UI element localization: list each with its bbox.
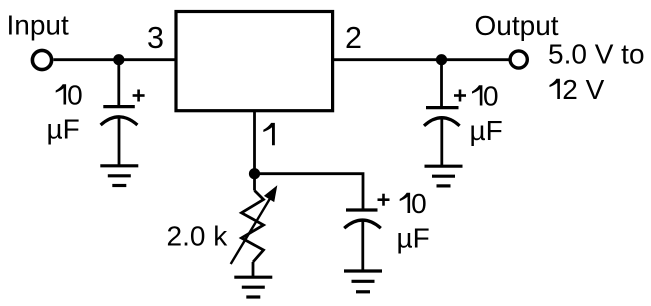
C2 value 10	[472, 81, 499, 112]
wire pin 1 junction to capacitor C3	[255, 174, 364, 209]
ground (C2)	[425, 166, 463, 186]
resistor R1 (2.0 k variable)	[242, 179, 264, 277]
wire input terminal to pin 3	[54, 58, 178, 61]
wire C3 to ground	[361, 222, 364, 271]
svg-text:µF: µF	[47, 114, 80, 145]
R1 value 2.0 k	[167, 221, 229, 252]
svg-text:0: 0	[67, 80, 83, 111]
wire C1 to ground	[118, 118, 121, 166]
pin 2 label	[345, 21, 362, 55]
regulator U1	[176, 12, 333, 111]
R1 wiper arrow	[231, 185, 278, 264]
wire pin 1 down	[253, 112, 256, 174]
label Output	[475, 10, 559, 41]
ground (R1)	[234, 277, 272, 297]
svg-text:5.0 V to: 5.0 V to	[548, 39, 645, 70]
output terminal	[510, 51, 527, 68]
svg-text:2: 2	[345, 21, 362, 55]
C1 value 10	[56, 80, 83, 111]
label 12 V	[550, 74, 605, 105]
pin 3 label	[147, 21, 164, 55]
wire output junction to capacitor C2	[440, 60, 443, 107]
capacitor C1	[101, 107, 138, 125]
ground (C3)	[344, 271, 382, 292]
C2 value µF	[470, 115, 503, 146]
svg-text:µF: µF	[397, 223, 430, 254]
ground (C1)	[100, 166, 138, 186]
svg-text:2.0 k: 2.0 k	[167, 221, 229, 252]
svg-text:Input: Input	[7, 10, 69, 41]
capacitor C2	[424, 108, 460, 126]
svg-text:µF: µF	[470, 115, 503, 146]
input terminal	[32, 50, 51, 69]
wire C2 to ground	[440, 119, 443, 166]
svg-text:2 V: 2 V	[562, 74, 604, 105]
node output junction	[436, 54, 447, 65]
wire input junction to capacitor C1	[117, 60, 120, 106]
svg-text:0: 0	[411, 188, 427, 219]
C2 polarity plus	[454, 90, 466, 102]
wire pin 2 to output terminal	[333, 58, 509, 61]
pin 1 label	[263, 123, 275, 145]
C3 polarity plus	[378, 194, 390, 206]
node input junction	[113, 54, 124, 65]
svg-text:0: 0	[483, 81, 499, 112]
label 5.0 V to	[548, 39, 645, 70]
C3 value µF	[397, 223, 430, 254]
node pin 1 junction	[249, 168, 260, 179]
label Input	[7, 10, 69, 41]
svg-text:Output: Output	[475, 10, 559, 41]
capacitor C3	[344, 210, 381, 228]
C3 value 10	[400, 188, 427, 219]
svg-text:3: 3	[147, 21, 164, 55]
C1 value µF	[47, 114, 80, 145]
C1 polarity plus	[133, 90, 145, 102]
